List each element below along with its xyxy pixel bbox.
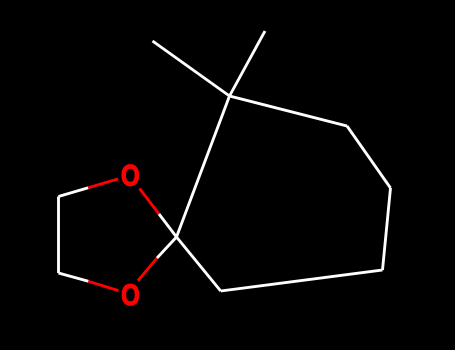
wire bond O2-S red half [138, 258, 157, 281]
svg-text:O: O [121, 158, 140, 192]
wire bond O1-S white half [159, 214, 177, 237]
wire bond O2-CH2b white half [59, 273, 89, 281]
wire bond S-V2 (spiro to bridge apex, long) [177, 96, 230, 237]
wire bond O2-S white half [157, 237, 177, 258]
wire bond O2-CH2b red half [88, 281, 118, 290]
wire bond O1-S red half [140, 189, 160, 215]
wire bond V4-V5 [383, 188, 391, 270]
wire bond V2-M2 (methyl up-right) [230, 31, 266, 96]
wire bond O1-CH2a white half [59, 188, 89, 197]
wire bond V5-V6 (long bottom edge) [221, 270, 383, 291]
wire bond V6-S [177, 237, 221, 291]
wire bond CH2a-CH2b (dioxolane left edge) [57, 197, 60, 274]
wire bond O1-CH2a red half [88, 179, 118, 188]
wire bond V2-V3 (long bridge bond) [230, 96, 348, 126]
svg-text:O: O [121, 278, 140, 312]
wire bond V3-V4 [347, 126, 391, 188]
wire bond V2-M1 (methyl up-left) [153, 41, 230, 96]
